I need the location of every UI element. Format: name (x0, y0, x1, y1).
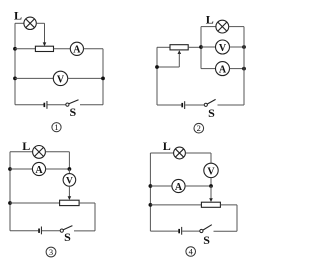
ammeter A, circuit 2 (216, 62, 230, 76)
svg-text:4: 4 (189, 247, 194, 257)
wire: lamp row right and corner down, circuit 3 (45, 152, 69, 169)
node: left bus / rheostat row, circuit 3 (8, 201, 12, 205)
wire: voltmeter row left, circuit 1 (15, 77, 54, 79)
voltmeter V, circuit 2 (216, 40, 230, 54)
svg-text:V: V (219, 43, 227, 54)
switch S, circuit 2 (204, 99, 215, 106)
battery cell, circuit 1 (44, 101, 48, 109)
node: left bus / ammeter row, circuit 4 (149, 184, 153, 188)
wire: wiper vertical with down arrow, circuit 1 (43, 23, 47, 46)
svg-text:2: 2 (197, 123, 201, 133)
label S, circuit 4 (203, 233, 210, 247)
wire: lamp row right, circuit 2 (229, 26, 244, 28)
label L, circuit 4 (163, 139, 171, 153)
wire: ammeter row left, circuit 3 (10, 168, 32, 170)
wire: lamp row left, circuit 2 (201, 26, 216, 28)
ammeter A, circuit 1 (70, 42, 83, 55)
wire: left bus to rheostat, circuit 2 (157, 46, 170, 48)
rheostat R, circuit 2 (170, 45, 188, 50)
lamp L, circuit 1 (24, 17, 36, 29)
wire: bottom left segment, circuit 2 (157, 104, 181, 106)
voltmeter V, circuit 4 (204, 163, 218, 177)
wire: bottom left segment, circuit 4 (150, 230, 178, 232)
wire: ammeter row left, circuit 2 (201, 68, 215, 70)
svg-text:L: L (206, 12, 214, 26)
lamp L, circuit 3 (33, 146, 46, 159)
wire: left vertical bus, circuit 1 (14, 23, 16, 105)
wire: lamp branch left segment, circuit 1 (15, 22, 24, 24)
switch S, circuit 4 (200, 225, 212, 233)
wire: voltmeter down to junction, circuit 4 (210, 177, 212, 186)
wire: ammeter row left, circuit 4 (150, 185, 172, 187)
wire: lamp row right and corner down, circuit 4 (185, 153, 211, 163)
label: circled number 4 (186, 247, 196, 257)
wire: rheostat right and corner down, circuit 3 (79, 203, 95, 231)
svg-text:A: A (219, 64, 227, 75)
battery cell, circuit 2 (181, 101, 185, 109)
node: right bus / ammeter row, circuit 2 (242, 67, 246, 71)
wiper: stem and down arrow, circuit 4 (209, 186, 213, 202)
wire: lamp row left, circuit 4 (150, 152, 173, 154)
label L, circuit 3 (22, 139, 30, 153)
wire: left bus to rheostat, circuit 1 (15, 48, 35, 50)
node: left bus / rheostat row, circuit 4 (149, 203, 153, 207)
battery cell, circuit 4 (178, 227, 182, 235)
svg-text:A: A (175, 182, 183, 193)
node: lamp corner / voltmeter junction, circuit 3 (68, 167, 72, 171)
rheostat R, circuit 4 (201, 202, 220, 207)
label: circled number 2 (194, 123, 204, 133)
label: circled number 1 (52, 122, 61, 132)
wiper: stem and down arrow, circuit 3 (68, 186, 72, 200)
wire: ammeter row right, circuit 3 (46, 168, 70, 170)
wiper: up arrow and stem, circuit 2 (157, 50, 181, 67)
wire: junction down to voltmeter, circuit 3 (68, 169, 70, 174)
svg-text:V: V (66, 177, 73, 187)
node: left bus / resistor row junction, circuit 1 (13, 47, 17, 51)
wire: rheostat to ammeter, circuit 1 (54, 48, 71, 50)
node: left bus / voltmeter row, circuit 1 (13, 77, 17, 81)
wire: battery to switch, circuit 3 (42, 230, 60, 232)
wire: bottom left segment, circuit 3 (10, 230, 38, 232)
wire: left vertical bus, circuit 2 (156, 47, 158, 105)
node: middle bus / voltmeter row, circuit 2 (199, 45, 203, 49)
svg-text:3: 3 (49, 247, 53, 257)
node: left bus / ammeter row, circuit 3 (8, 167, 12, 171)
wire: left vertical bus, circuit 3 (9, 152, 11, 231)
svg-text:V: V (207, 166, 215, 177)
wire: voltmeter row left, circuit 2 (201, 46, 215, 48)
wire: voltmeter row right, circuit 1 (67, 77, 103, 79)
svg-text:L: L (163, 139, 171, 153)
svg-text:V: V (57, 74, 65, 85)
svg-text:S: S (70, 105, 77, 119)
lamp L, circuit 2 (216, 20, 229, 33)
wire: rheostat to middle bus, circuit 2 (188, 46, 201, 48)
node: voltmeter / ammeter junction, circuit 4 (209, 184, 213, 188)
wire: switch to right corner, circuit 1 (80, 104, 103, 106)
rheostat R, circuit 1 (35, 46, 53, 51)
node: right bus / voltmeter row, circuit 1 (101, 77, 105, 81)
wire: switch to right corner, circuit 4 (214, 230, 238, 232)
svg-text:A: A (35, 165, 43, 176)
rheostat R, circuit 3 (60, 200, 80, 205)
label L, circuit 1 (14, 8, 22, 22)
node: wiper / left bus junction, circuit 2 (155, 65, 159, 69)
lamp L, circuit 4 (174, 147, 186, 159)
wire: switch to right corner, circuit 2 (218, 104, 245, 106)
wire: lamp row left, circuit 3 (10, 151, 33, 153)
wire: right vertical bus, circuit 2 (243, 27, 245, 105)
wire: ammeter row right, circuit 2 (230, 68, 245, 70)
node: right bus / voltmeter row, circuit 2 (242, 45, 246, 49)
wire: battery to switch, circuit 4 (182, 230, 200, 232)
wire: bottom left segment, circuit 1 (15, 104, 44, 106)
wire: left vertical bus, circuit 4 (149, 153, 151, 231)
svg-text:S: S (208, 106, 215, 120)
wire: left bus to rheostat, circuit 4 (150, 204, 201, 206)
label S, circuit 3 (64, 230, 71, 244)
svg-text:L: L (14, 8, 22, 22)
voltmeter V, circuit 1 (53, 71, 67, 85)
svg-text:L: L (22, 139, 30, 153)
battery cell, circuit 3 (38, 227, 42, 235)
wire: voltmeter row right, circuit 2 (230, 46, 245, 48)
voltmeter V, circuit 3 (63, 174, 76, 187)
wire: ammeter row right, circuit 4 (185, 185, 211, 187)
wire: left bus to rheostat, circuit 3 (10, 202, 60, 204)
wire: right vertical bus, circuit 1 (102, 49, 104, 105)
label: circled number 3 (46, 247, 56, 257)
wire: battery to switch, circuit 1 (48, 104, 66, 106)
svg-text:1: 1 (54, 122, 58, 132)
ammeter A, circuit 4 (172, 179, 185, 192)
wire: rheostat right and corner down, circuit 4 (220, 205, 237, 231)
label S, circuit 2 (208, 106, 215, 120)
wire: battery to switch, circuit 2 (185, 104, 204, 106)
ammeter A, circuit 3 (32, 162, 45, 175)
switch S, circuit 3 (60, 226, 72, 233)
wire: switch to right corner, circuit 3 (74, 230, 95, 232)
svg-text:S: S (203, 233, 210, 247)
wire: middle vertical bus, circuit 2 (200, 27, 202, 69)
svg-text:S: S (64, 230, 71, 244)
switch S, circuit 1 (66, 100, 79, 106)
wire: ammeter to right corner, circuit 1 (84, 48, 104, 50)
wire: lamp to wiper corner, circuit 1 (36, 22, 44, 24)
label L, circuit 2 (206, 12, 214, 26)
label S, circuit 1 (70, 105, 77, 119)
svg-text:A: A (73, 45, 81, 56)
